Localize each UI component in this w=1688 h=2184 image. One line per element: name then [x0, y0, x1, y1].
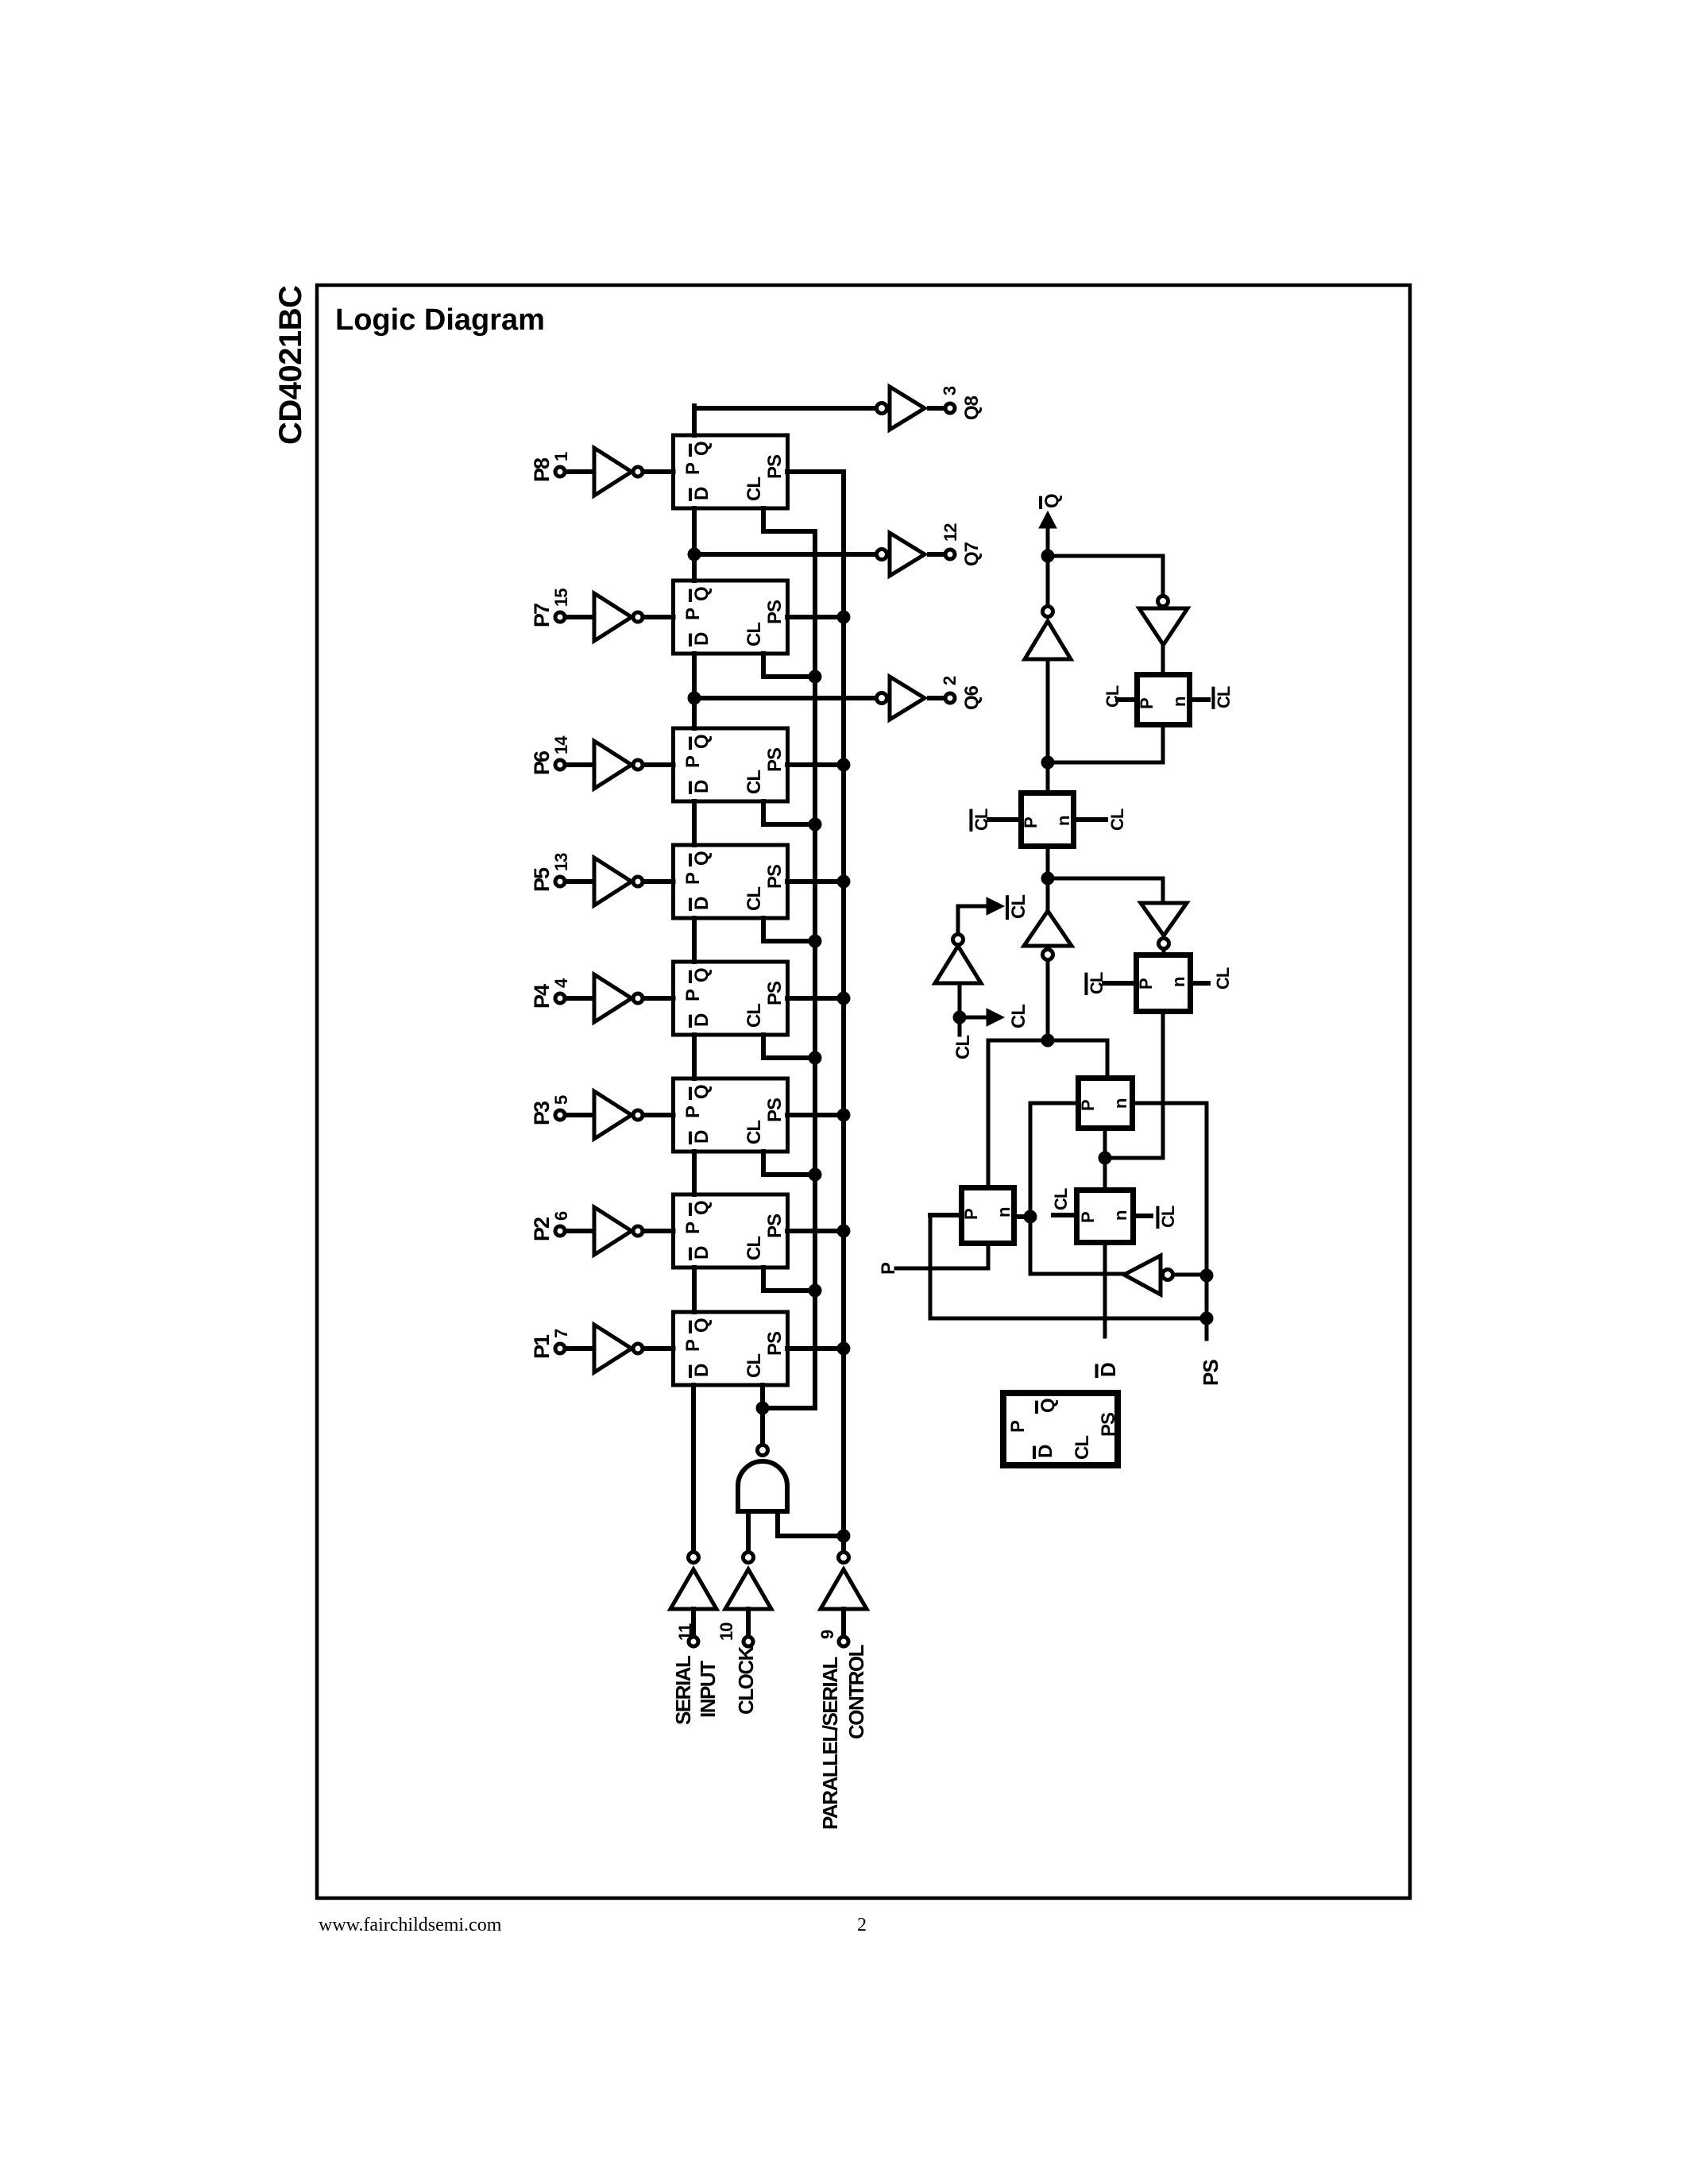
svg-text:D: D [1096, 1362, 1120, 1377]
svg-text:n: n [1169, 696, 1189, 707]
svg-text:Q8: Q8 [961, 396, 983, 420]
svg-text:D: D [1035, 1445, 1056, 1458]
wire FF2 PS stub [787, 615, 844, 619]
pin Q6 (pin 2) [940, 676, 983, 710]
wire TG2 CL control stub [1076, 817, 1106, 822]
node PS rail junction FF7 [837, 1225, 851, 1238]
flip-flop FF8 (P1 stage) [674, 1312, 788, 1385]
inverter master forward [1024, 878, 1072, 1040]
svg-text:CL: CL [1213, 967, 1233, 990]
node PS-bar junction at TG2-prime [1024, 1210, 1037, 1224]
svg-text:Logic Diagram: Logic Diagram [335, 303, 545, 337]
wire NAND input from PS rail [778, 1511, 844, 1536]
svg-text:P: P [1007, 1420, 1029, 1433]
wire TG5 CL control stub [1053, 1213, 1074, 1217]
pin P3 (pin 5) [530, 1095, 571, 1125]
svg-text:Q: Q [691, 441, 713, 456]
node CL rail junction FF4 [809, 935, 822, 948]
node master output D [1041, 872, 1055, 886]
svg-text:P: P [1078, 1211, 1098, 1223]
node CL rail junction FF6 [809, 1168, 822, 1182]
node slave input B [1041, 756, 1055, 770]
svg-text:CL: CL [744, 1354, 765, 1378]
svg-text:P: P [682, 1221, 704, 1234]
svg-text:P6: P6 [530, 751, 554, 775]
inverter slave forward [1025, 556, 1071, 790]
wire FF5 Q-bar to FF4 D-bar [692, 918, 697, 962]
svg-text:P: P [682, 755, 704, 768]
NAND gate clock gating [738, 1408, 787, 1511]
wire master input node horizontal [989, 1039, 1107, 1043]
svg-text:Q: Q [691, 851, 713, 866]
transmission gate TG1 slave feedback [1137, 675, 1190, 725]
flip-flop FF4 (P5 stage) [674, 845, 788, 918]
pin SERIAL INPUT (pin 11) [675, 1623, 698, 1646]
node CL branch [953, 1011, 967, 1024]
node PS rail junction FF2 [837, 611, 851, 624]
svg-text:D: D [691, 1130, 713, 1144]
pin P6 (pin 14) [530, 735, 571, 775]
node PS rail junction FF3 [837, 758, 851, 772]
node TG4 TG3 junction E [1099, 1152, 1112, 1165]
svg-text:12: 12 [941, 523, 960, 542]
svg-text:D: D [691, 1364, 713, 1377]
wire FF8 Q-bar to FF7 D-bar [692, 1268, 697, 1312]
node CL rail junction FF3 [809, 818, 822, 832]
svg-text:Q: Q [1037, 1398, 1059, 1413]
wire P input to TG2-prime [896, 1246, 988, 1268]
wire FF4 PS stub [787, 879, 844, 884]
flip-flop FF3 (P6 stage) [674, 728, 788, 801]
wire FF7 Q-bar to FF6 D-bar [692, 1152, 697, 1194]
wire TG1 CL control stub [1118, 697, 1134, 702]
pin P4 (pin 4) [530, 978, 571, 1009]
svg-text:7: 7 [551, 1329, 571, 1338]
svg-text:2: 2 [857, 1915, 867, 1935]
node PS rail junction FF8 [837, 1342, 851, 1356]
transmission gate TG5 serial data input [1077, 1190, 1134, 1243]
legend flip-flop symbol box [1003, 1393, 1119, 1465]
inverter P4 input buffer [566, 974, 674, 1022]
arrow CL distribution [960, 1009, 1004, 1026]
wire node E into TG5 [1103, 1158, 1107, 1187]
svg-text:P1: P1 [530, 1334, 554, 1359]
node master input C [1041, 1034, 1055, 1048]
svg-text:CL: CL [1008, 895, 1029, 919]
svg-text:PS: PS [764, 600, 786, 624]
svg-text:Q: Q [691, 967, 713, 982]
inverter CLOCK input buffer [725, 1553, 771, 1637]
wire CL rail bottom to NAND node [763, 1406, 815, 1410]
svg-text:CL: CL [744, 1004, 765, 1028]
inverter P8 input buffer [566, 448, 674, 496]
transmission gate TG3 master feedback [1136, 955, 1191, 1012]
wire TG3 output down to master input node [1105, 1014, 1163, 1158]
svg-text:n: n [994, 1207, 1014, 1217]
wire slave node A to feedback inverter [1048, 556, 1163, 595]
svg-text:CLOCK: CLOCK [734, 1646, 758, 1715]
svg-text:n: n [1168, 977, 1188, 987]
wire TG2 to master node D [1046, 849, 1050, 878]
node Q7 tap junction [688, 548, 701, 561]
node PS rail junction FF6 [837, 1109, 851, 1122]
svg-text:P: P [1021, 816, 1041, 828]
inverter P3 input buffer [566, 1091, 674, 1139]
svg-text:P: P [682, 462, 704, 475]
node CL rail junction FF2 [809, 670, 822, 684]
svg-text:CL: CL [744, 1121, 765, 1144]
svg-text:www.fairchildsemi.com: www.fairchildsemi.com [319, 1915, 502, 1935]
wire CL distribution rail [813, 531, 817, 1408]
wire FF3 CL elbow [763, 801, 815, 824]
wire CL input up [958, 1017, 962, 1035]
wire TG2-prime left control to PS [930, 1215, 1207, 1318]
inverter P2 input buffer [566, 1207, 674, 1255]
buffer Q7 output [877, 533, 946, 576]
svg-text:D: D [691, 632, 713, 646]
inverter CL to CL-bar [935, 906, 981, 1017]
svg-text:3: 3 [940, 386, 960, 396]
wire FF6 CL elbow [763, 1152, 815, 1175]
svg-text:10: 10 [717, 1623, 736, 1641]
svg-text:CD4021BC: CD4021BC [273, 285, 308, 445]
svg-text:P7: P7 [530, 604, 554, 627]
svg-text:PS: PS [1098, 1412, 1119, 1437]
svg-text:P: P [1078, 1099, 1098, 1111]
wire TG2 CL-bar control stub [989, 817, 1018, 822]
svg-text:CL: CL [744, 477, 765, 501]
wire FF6 PS stub [787, 1113, 844, 1117]
wire node D to master feedback inverter [1048, 878, 1163, 903]
svg-text:6: 6 [551, 1211, 571, 1221]
inverter P7 input buffer [566, 593, 674, 641]
transmission gate TG2 master to slave [1021, 793, 1074, 847]
svg-text:CL: CL [744, 770, 765, 794]
wire FF8 PS stub [787, 1346, 844, 1351]
wire FF8 CL stub to NAND output node [760, 1385, 765, 1408]
inverter PS to PS-bar [1030, 1256, 1207, 1295]
svg-text:P: P [682, 989, 704, 1001]
svg-text:CL: CL [1008, 1005, 1029, 1028]
svg-text:P: P [878, 1262, 899, 1275]
wire FF4 Q-bar to FF3 D-bar [692, 801, 697, 845]
wire FF3 Q-bar to FF2 D-bar with Q6 tap [694, 654, 877, 728]
svg-text:n: n [1053, 816, 1073, 826]
page border frame [317, 285, 1410, 1898]
svg-text:11: 11 [675, 1623, 695, 1641]
svg-text:5: 5 [551, 1095, 571, 1105]
wire D-bar input to TG5 [1103, 1245, 1107, 1337]
wire FF2 CL elbow [763, 654, 815, 677]
svg-text:CL: CL [1087, 972, 1107, 994]
svg-text:1: 1 [551, 452, 571, 461]
svg-text:PS: PS [764, 1098, 786, 1122]
wire NAND input from clock inverter [746, 1511, 751, 1551]
node slave output Q-bar [1041, 550, 1055, 563]
buffer Q6 output [877, 677, 946, 720]
wire TG3 CL-bar control stub [1104, 981, 1134, 986]
wire branch to TG4 [1106, 1040, 1110, 1075]
pin P5 (pin 13) [530, 853, 571, 892]
svg-text:CL: CL [952, 1036, 974, 1059]
svg-text:P5: P5 [530, 867, 554, 892]
wire TG2-prime right control stub [1017, 1214, 1030, 1219]
svg-text:P4: P4 [530, 984, 554, 1009]
svg-text:P8: P8 [530, 457, 554, 482]
pin CLOCK (pin 10) [717, 1623, 753, 1646]
label SERIAL INPUT [671, 1655, 720, 1725]
wire FF2 Q-bar to FF1 D-bar with Q7 tap [694, 508, 877, 581]
svg-text:Q: Q [691, 1318, 713, 1333]
svg-text:CL: CL [1051, 1188, 1071, 1210]
svg-text:2: 2 [940, 676, 960, 685]
svg-text:P: P [1137, 697, 1157, 709]
wire TG4 left control to PS-bar [1030, 1103, 1076, 1274]
node PS rail junction FF5 [837, 992, 851, 1005]
node Q6 tap junction [688, 692, 701, 705]
transmission gate TG2-prime parallel data gating [961, 1188, 1014, 1244]
inverter P5 input buffer [566, 858, 674, 905]
inverter P1 input buffer [566, 1325, 674, 1372]
svg-text:Q: Q [1041, 493, 1063, 508]
pin Q7 (pin 12) [941, 523, 983, 566]
wire FF6 Q-bar to FF5 D-bar [692, 1035, 697, 1078]
wire TG4 output to node E [1103, 1131, 1107, 1158]
inverter slave feedback [1139, 596, 1188, 673]
svg-text:CONTROL: CONTROL [844, 1644, 868, 1739]
svg-text:PARALLEL/SERIAL: PARALLEL/SERIAL [818, 1657, 842, 1830]
svg-text:14: 14 [551, 735, 571, 754]
wire TG1 output to slave node B [1048, 727, 1163, 762]
svg-text:Q: Q [691, 1084, 713, 1099]
wire serial data into FF8 D-bar [691, 1385, 696, 1551]
svg-text:CL: CL [744, 887, 765, 911]
wire FF4 CL elbow [763, 918, 815, 941]
svg-text:15: 15 [551, 588, 571, 607]
pin Q8 (pin 3) [940, 386, 983, 420]
svg-text:P: P [682, 1339, 704, 1352]
svg-text:4: 4 [551, 978, 571, 988]
node PS rail to NAND junction [837, 1530, 851, 1543]
node NAND output / CL junction [756, 1402, 770, 1415]
svg-text:CL: CL [744, 623, 765, 646]
wire TG4 right control to PS line [1135, 1103, 1207, 1339]
svg-text:Q7: Q7 [961, 542, 983, 566]
svg-text:PS: PS [764, 864, 786, 889]
inverter PARALLEL/SERIAL CONTROL input buffer [821, 1553, 867, 1637]
flip-flop FF5 (P4 stage) [674, 962, 788, 1035]
wire PS distribution rail [841, 472, 846, 1551]
svg-text:SERIAL: SERIAL [671, 1655, 695, 1725]
pin PARALLEL/SERIAL CONTROL (pin 9) [817, 1630, 848, 1646]
node PS line at inverter input [1200, 1269, 1214, 1283]
buffer Q8 output [877, 387, 946, 430]
svg-text:CL: CL [1107, 808, 1127, 831]
svg-text:P3: P3 [530, 1101, 554, 1125]
svg-text:D: D [691, 780, 713, 793]
svg-text:PS: PS [1199, 1360, 1223, 1386]
svg-text:P: P [1136, 978, 1156, 990]
inverter master feedback [1141, 903, 1187, 952]
svg-text:D: D [691, 1013, 713, 1027]
svg-text:CL: CL [971, 808, 991, 831]
svg-text:PS: PS [764, 981, 786, 1005]
wire FF3 PS stub [787, 762, 844, 767]
svg-text:CL: CL [1158, 1206, 1178, 1228]
wire branch to TG2-prime [987, 1040, 991, 1185]
svg-text:CL: CL [1072, 1436, 1093, 1460]
svg-text:CL: CL [744, 1237, 765, 1260]
node PS line at TG2-prime control [1200, 1312, 1214, 1325]
node PS rail junction FF4 [837, 875, 851, 889]
wire FF1 PS to PS rail [787, 469, 844, 474]
svg-text:P: P [682, 1106, 704, 1118]
svg-text:n: n [1111, 1098, 1130, 1109]
node CL rail junction FF7 [809, 1284, 822, 1298]
svg-text:Q6: Q6 [961, 685, 983, 710]
svg-text:D: D [691, 1246, 713, 1260]
svg-text:Q: Q [691, 1200, 713, 1215]
wire TG3 CL control stub [1193, 981, 1208, 986]
flip-flop FF2 (P7 stage) [674, 581, 788, 654]
svg-text:PS: PS [764, 454, 786, 479]
wire FF7 CL elbow [763, 1268, 815, 1291]
wire TG5 CL-bar control stub [1136, 1214, 1151, 1218]
svg-text:PS: PS [764, 1214, 786, 1238]
svg-text:PS: PS [764, 747, 786, 772]
pin P8 (pin 1) [530, 452, 571, 482]
svg-text:Q: Q [691, 734, 713, 749]
svg-text:Q: Q [691, 586, 713, 601]
svg-text:PS: PS [764, 1331, 786, 1356]
svg-text:D: D [691, 487, 713, 500]
svg-text:P2: P2 [530, 1217, 554, 1241]
wire FF5 CL elbow [763, 1035, 815, 1058]
svg-text:INPUT: INPUT [696, 1661, 720, 1718]
wire FF5 PS stub [787, 996, 844, 1001]
wire FF1 CL elbow to CL rail [763, 508, 815, 531]
label PARALLEL/SERIAL CONTROL [818, 1644, 868, 1830]
pin P1 (pin 7) [530, 1329, 571, 1359]
wire FF1 Q-bar up to Q8 tap [694, 406, 877, 435]
svg-text:P: P [682, 608, 704, 620]
pin P2 (pin 6) [530, 1211, 571, 1241]
svg-text:n: n [1111, 1210, 1130, 1221]
arrow Q-bar output [1039, 511, 1056, 556]
transmission gate TG4 data gating [1078, 1078, 1133, 1129]
wire FF7 PS stub [787, 1229, 844, 1233]
flip-flop FF7 (P2 stage) [674, 1194, 788, 1268]
inverter SERIAL INPUT input buffer [670, 1553, 717, 1637]
svg-text:CL: CL [1214, 686, 1234, 708]
node CL rail junction FF5 [809, 1051, 822, 1065]
flip-flop FF1 (P8 stage) [674, 435, 788, 508]
pin P7 (pin 15) [530, 588, 571, 627]
svg-text:P: P [961, 1208, 981, 1220]
svg-text:9: 9 [817, 1630, 837, 1639]
svg-text:D: D [691, 897, 713, 910]
svg-text:P: P [682, 872, 704, 885]
svg-text:13: 13 [551, 853, 571, 871]
arrow CL-bar distribution [958, 897, 1004, 915]
flip-flop FF6 (P3 stage) [674, 1078, 788, 1152]
svg-text:CL: CL [1103, 685, 1122, 708]
inverter P6 input buffer [566, 741, 674, 789]
wire TG1 CL-bar control stub [1192, 697, 1208, 702]
